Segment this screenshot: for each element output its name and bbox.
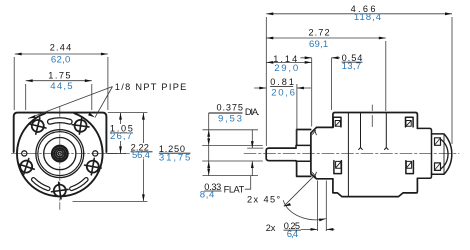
ext line body left (0.54)	[331, 58, 333, 110]
arrowheads 1.250 (inside)	[207, 130, 210, 137]
muffler screw square top	[435, 138, 441, 146]
shaft full dia section	[296, 145, 311, 161]
svg-text:8,4: 8,4	[200, 189, 215, 200]
body internal line mid (drilled)	[359, 113, 363, 149]
screw left	[16, 156, 37, 177]
screw top-right	[71, 116, 90, 135]
svg-text:2.72: 2.72	[309, 27, 330, 37]
muffler cap chord line	[443, 135, 445, 175]
ext line 2.72 right	[385, 41, 387, 111]
svg-text:1/8 NPT PIPE: 1/8 NPT PIPE	[115, 82, 187, 92]
muffler screw square bottom	[435, 163, 441, 171]
extension bottom	[73, 200, 148, 202]
svg-text:69,1: 69,1	[309, 39, 328, 50]
dim 0.81 outside arrows	[254, 87, 311, 89]
motor body circle (clipped by plate)	[17, 113, 103, 196]
extension centerline right	[106, 152, 126, 154]
0.33 arrows vertical	[251, 130, 253, 176]
arrowheads 1.14	[266, 61, 273, 64]
arrowhead 45deg arc end	[319, 219, 326, 222]
ext line muffler end (4.66)	[451, 17, 453, 144]
svg-text:44,5: 44,5	[50, 81, 72, 92]
centerline vertical (front view)	[59, 107, 61, 210]
arrowheads 0.33 (outside)	[251, 141, 254, 148]
screw bottom	[50, 181, 69, 200]
svg-text:2x: 2x	[266, 223, 276, 233]
svg-text:0.81: 0.81	[270, 77, 294, 87]
svg-text:FLAT: FLAT	[224, 185, 245, 195]
arrowheads NPT leaders	[28, 115, 36, 118]
port center mark	[371, 105, 373, 127]
svg-text:20,6: 20,6	[271, 87, 295, 98]
svg-text:118,4: 118,4	[354, 12, 382, 23]
svg-text:1.75: 1.75	[48, 70, 70, 80]
dim 1.75 extension lines	[26, 84, 92, 110]
screw right	[83, 157, 102, 176]
dim 1.05 line	[120, 113, 122, 154]
screw cup body bottom-left	[334, 161, 342, 174]
extension top right	[108, 112, 148, 114]
bottom-right arc slot	[72, 180, 87, 189]
ext line boss face (0.81)	[296, 84, 298, 144]
flat extension thin line	[248, 147, 264, 149]
combined vertical: 0.375 leader + outside arrows + 1.250 dim	[208, 113, 210, 176]
svg-text:2.44: 2.44	[50, 43, 71, 53]
screw cup body top-left	[333, 117, 341, 127]
chamfer notch marks	[312, 131, 316, 177]
svg-text:31,75: 31,75	[159, 152, 191, 163]
arrowheads 0.54 (outside)	[305, 56, 312, 59]
arrowheads 4.66	[266, 12, 273, 15]
arrowheads 2.72	[266, 37, 273, 40]
small hole right	[93, 151, 98, 156]
muffler inner arc	[441, 140, 448, 169]
dim 4.66 line	[266, 13, 452, 15]
0.25 dim lines outside	[301, 228, 335, 230]
hub / shaft rings	[52, 146, 67, 161]
shaft (flat section)	[266, 148, 296, 161]
dim 2.22 line	[142, 113, 144, 202]
muffler neck/step	[417, 128, 431, 178]
svg-text:6,4: 6,4	[287, 229, 299, 240]
svg-text:13,7: 13,7	[342, 61, 362, 72]
arrowheads 1.05	[119, 113, 122, 120]
svg-text:56,4: 56,4	[132, 150, 151, 161]
dim 2.44 line	[15, 53, 108, 55]
dim text 1.05 / 26,7	[109, 123, 134, 142]
inner circle pair	[36, 130, 84, 178]
dim 1.75 line	[26, 80, 92, 82]
muffler cap	[432, 134, 452, 174]
dim 0.54 outside arrow lines	[300, 57, 340, 59]
45 deg chamfer line	[284, 177, 313, 206]
dim 2.44 extension lines	[14, 57, 108, 110]
svg-text:0.375: 0.375	[217, 103, 244, 113]
dim text 2.22 / 56,4	[130, 143, 155, 161]
arrowheads 0.25 (outside)	[311, 228, 318, 231]
boss ext lines (1.250)	[203, 130, 259, 176]
centerline horizontal (side view)	[244, 153, 459, 155]
top arc slot	[50, 120, 70, 121]
0.25 extension lines	[318, 181, 327, 232]
svg-text:9,53: 9,53	[218, 113, 242, 124]
bottom-left arc slot	[33, 180, 48, 189]
arrowheads 0.81 (outside)	[259, 87, 266, 90]
rotor circle	[44, 138, 76, 170]
svg-text:62,0: 62,0	[51, 54, 71, 65]
top plate (muffler plate)	[14, 113, 107, 152]
svg-text:DIA.: DIA.	[245, 107, 260, 117]
ext line flange face (1.14/0.54)	[311, 58, 313, 127]
centerline horizontal (front view)	[12, 153, 131, 155]
svg-text:29,0: 29,0	[274, 63, 298, 74]
leader lines NPT	[28, 87, 113, 119]
arrowheads 0.375 (outside, on shared vertical)	[207, 138, 210, 145]
dim text 2.44 / 62,0	[48, 43, 72, 92]
body internal line right (drilled)	[385, 113, 389, 149]
dim 2.72 line	[266, 37, 386, 39]
motor body outline	[333, 113, 418, 197]
shaft extension thin lines (dia 0.375)	[203, 145, 263, 161]
svg-text:26,7: 26,7	[110, 131, 132, 142]
arrowheads 2.44	[15, 53, 22, 56]
screw cup body top-right	[406, 117, 414, 127]
arrowheads 2.22	[142, 113, 145, 120]
screw cup body bottom-right	[406, 161, 414, 174]
45 deg arc	[283, 200, 326, 220]
0.33 FLAT leader	[245, 176, 251, 190]
dim 1.14 line	[266, 61, 311, 63]
ext line shaft tip (4.66/2.72/1.14/0.81)	[265, 17, 267, 146]
boss (pilot 1.250)	[297, 130, 311, 177]
small hole left	[22, 151, 27, 156]
flange with chamfers	[311, 127, 333, 178]
screw top-left	[28, 116, 48, 136]
arrowheads 1.75	[26, 79, 33, 82]
arrowhead 45deg reference line end	[284, 203, 291, 206]
body internal line left	[347, 113, 349, 196]
